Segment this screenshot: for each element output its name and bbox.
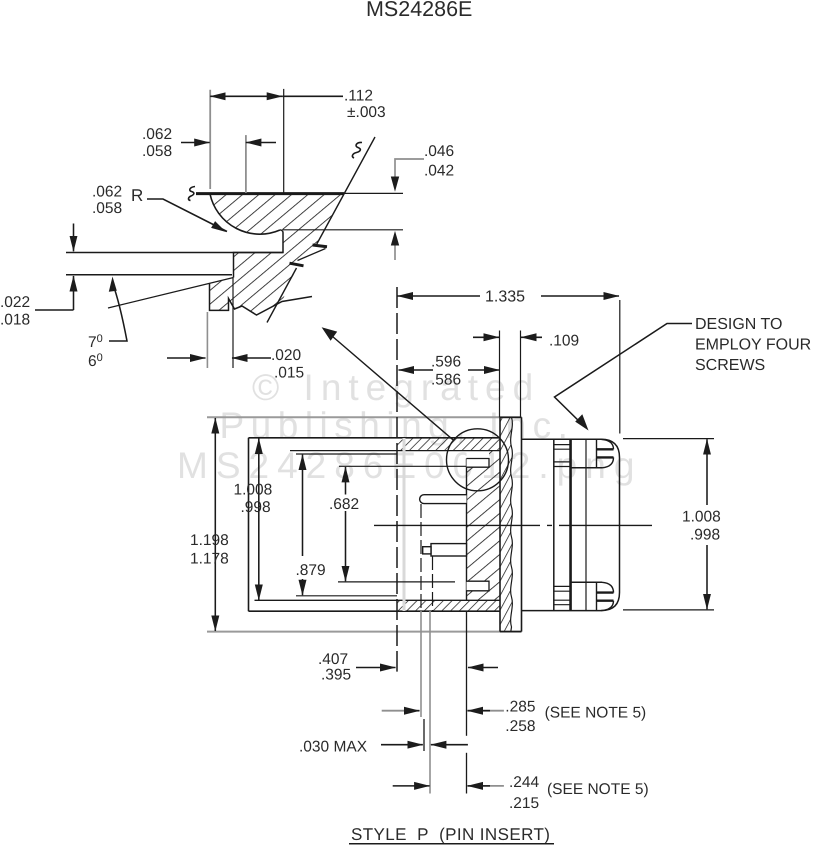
rim step block outline [210, 283, 313, 315]
dim .062/.058 upper arrows [181, 142, 210, 144]
svg-text:.018: .018 [0, 312, 30, 329]
svg-text:.058: .058 [92, 200, 122, 217]
insert top contact pocket [467, 459, 490, 468]
shell outer top line [249, 437, 501, 439]
screw block lines [570, 439, 572, 610]
svg-text:.879: .879 [296, 562, 326, 579]
leader DESIGN TO EMPLOY FOUR SCREWS [555, 324, 693, 428]
spacer ticks bottom [554, 585, 570, 587]
svg-text:.215: .215 [509, 795, 539, 812]
svg-text:1.008: 1.008 [234, 482, 273, 499]
top pin contact [420, 495, 467, 504]
groove-to-rim step outline [234, 230, 284, 278]
svg-text:.998: .998 [690, 527, 720, 544]
top surface thick line [196, 192, 344, 195]
svg-text:EMPLOY FOUR: EMPLOY FOUR [695, 337, 811, 354]
detail reference circle [447, 429, 509, 491]
svg-text:.285: .285 [505, 699, 535, 716]
top surface thin extension [344, 192, 403, 194]
dim .596/.586 [399, 369, 434, 371]
dim .020/.015 [206, 312, 208, 368]
screw stack bottom edge [522, 610, 602, 612]
underline STYLE P [349, 843, 554, 845]
bottom pin tip [423, 547, 431, 554]
svg-text:.407: .407 [318, 651, 348, 668]
bottom pin contact body [431, 544, 467, 556]
spacer column lines [553, 439, 555, 610]
dim 1.008 left [258, 439, 260, 601]
long break slant lower [267, 268, 297, 323]
insert top white pocket [467, 451, 490, 459]
long break slant upper [317, 137, 375, 244]
svg-text:.586: .586 [431, 372, 461, 389]
svg-text:.244: .244 [509, 774, 540, 791]
svg-text:.062: .062 [92, 184, 122, 201]
dim .407/.395 [356, 667, 396, 669]
svg-text:1.008: 1.008 [682, 509, 721, 526]
svg-text:.030 MAX: .030 MAX [299, 739, 368, 756]
top screw head [571, 467, 602, 469]
shell bottom wall hatched strip [397, 600, 500, 611]
dim 1.008 right [623, 438, 714, 440]
dim 1.335 [398, 295, 481, 297]
svg-text:±.003: ±.003 [347, 104, 386, 121]
insert hatched block [467, 451, 501, 601]
svg-text:.395: .395 [321, 667, 351, 684]
dim .030 MAX [381, 744, 423, 746]
svg-text:.015: .015 [274, 365, 304, 382]
flange height extension lines (gray) [207, 416, 522, 418]
svg-text:.596: .596 [431, 354, 461, 371]
svg-text:.022: .022 [0, 294, 30, 311]
svg-text:(SEE NOTE 5): (SEE NOTE 5) [545, 705, 647, 722]
insert face extension line [466, 611, 468, 736]
flange bottom line [66, 274, 232, 276]
shell top wall hatched strip [397, 438, 500, 451]
svg-text:.020: .020 [271, 347, 302, 364]
dim .682 [339, 465, 466, 467]
svg-text:SCREWS: SCREWS [695, 357, 765, 374]
dim .244/.215 [393, 785, 430, 787]
svg-text:.998: .998 [241, 499, 271, 516]
plate left edge [499, 417, 501, 631]
shell inner bottom line [255, 599, 501, 601]
flange top line [66, 252, 283, 254]
pin tip extension lines [420, 504, 422, 611]
shell inner top line [290, 450, 500, 452]
spacer ticks top [554, 444, 570, 446]
leader R [147, 199, 227, 232]
svg-text:1.198: 1.198 [190, 532, 229, 549]
plate right edge [521, 417, 523, 631]
svg-text:.682: .682 [329, 496, 359, 513]
svg-text:.109: .109 [549, 333, 579, 350]
leader arrow from body to detail view [325, 330, 453, 440]
svg-text:.062: .062 [142, 126, 172, 143]
dim .109 [473, 336, 499, 338]
dim 1.198/1.178 [214, 418, 216, 631]
svg-text:.112: .112 [344, 88, 373, 105]
plate top/bottom dark edges [500, 416, 522, 418]
dim .879 [296, 453, 397, 455]
square flange plate hatched (wavy right edge) [500, 417, 512, 631]
dim .112 extension lines [209, 90, 211, 189]
dashed extension line [396, 287, 398, 672]
taper line 7deg [108, 278, 234, 309]
rim lower line to .046 [283, 229, 403, 231]
shell outer bottom line [249, 610, 501, 612]
svg-text:STYLE P (PIN INSERT): STYLE P (PIN INSERT) [351, 825, 550, 844]
lightning jag bars [313, 245, 328, 247]
svg-text:.046: .046 [424, 143, 454, 160]
screw stack top edge [522, 438, 602, 440]
bottom screw head [571, 581, 602, 583]
shell rear face [248, 438, 250, 611]
dim .285/.258 [382, 710, 420, 712]
dim .112 line with arrows [210, 95, 282, 97]
wavy casting line [511, 417, 513, 631]
svg-text:(SEE NOTE 5): (SEE NOTE 5) [547, 781, 649, 798]
svg-text:DESIGN TO: DESIGN TO [695, 316, 782, 333]
mounting plate rounded corners [601, 439, 620, 610]
break squiggle on slant [352, 142, 362, 158]
insert bottom contact pocket [467, 581, 490, 591]
svg-text:.258: .258 [505, 718, 535, 735]
center line [374, 524, 652, 526]
hatched cross-section of rim (detail view) [210, 194, 344, 315]
svg-text:.058: .058 [142, 143, 172, 160]
dim .022/.018 [73, 224, 75, 252]
svg-text:1.335: 1.335 [485, 289, 525, 306]
break squiggle left end [188, 187, 195, 201]
svg-text:.042: .042 [424, 163, 454, 180]
angle leader 7/6 deg [109, 283, 127, 341]
svg-text:R: R [131, 186, 143, 205]
svg-text:1.178: 1.178 [190, 551, 229, 568]
gasket groove arc R [210, 194, 280, 234]
svg-text:MS24286E: MS24286E [366, 0, 472, 21]
hidden diameter line (light) [403, 438, 406, 611]
insert front face [466, 459, 468, 601]
dim .046/.042 bracket [395, 159, 424, 177]
